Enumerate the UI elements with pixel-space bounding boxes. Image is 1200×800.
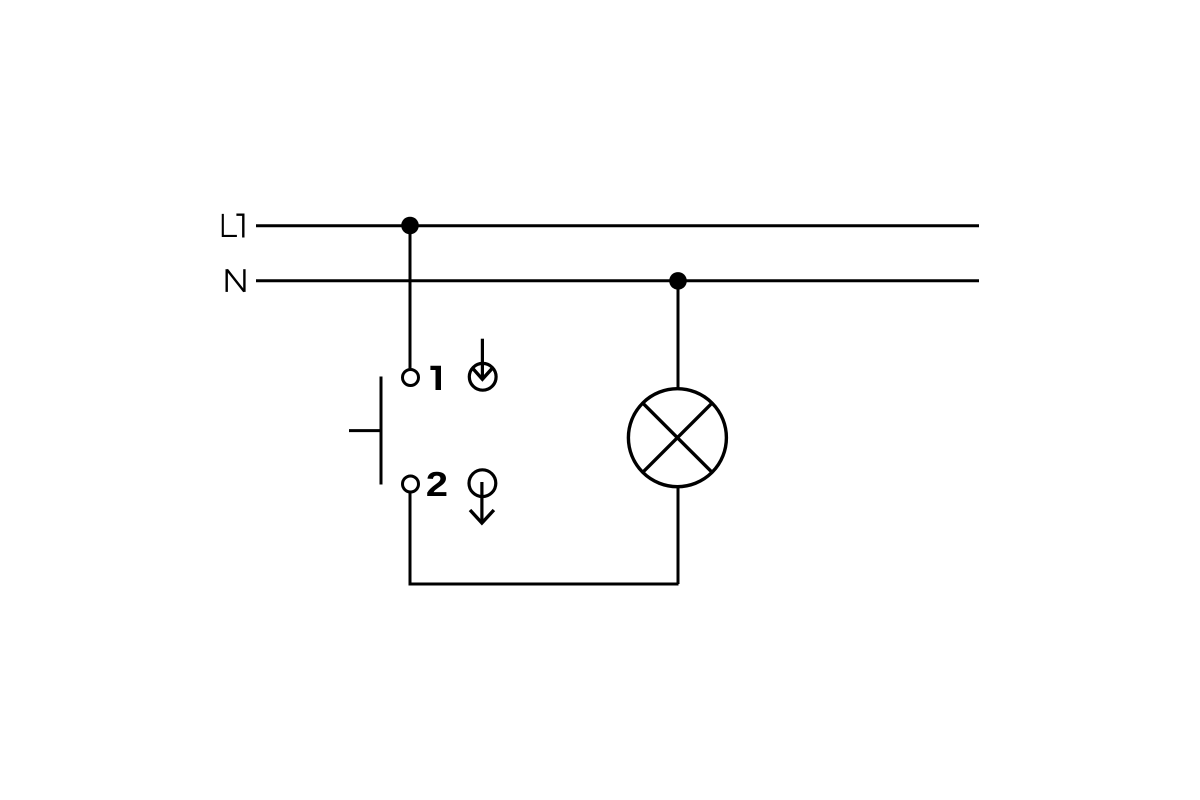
switch S1 operating lever	[349, 429, 381, 432]
wire L1 junction down to switch terminal 1	[409, 226, 412, 369]
terminal 2 circle	[403, 476, 419, 492]
press-in direction indicator at terminal 1: circle	[469, 363, 496, 390]
release direction indicator at terminal 2: arrow shaft	[480, 482, 483, 523]
terminal 1 circle	[403, 370, 419, 386]
node junction on N	[669, 272, 687, 290]
lamp E1 cross stroke 1	[642, 402, 713, 473]
pin label 1	[430, 366, 441, 390]
switch S1 actuator bar	[380, 377, 383, 485]
net label L1	[223, 214, 244, 238]
release direction indicator at terminal 2: circle	[469, 470, 496, 497]
wire up to terminal 2	[409, 493, 412, 584]
wire L1 phase line	[256, 224, 979, 227]
wire bottom horizontal return	[409, 583, 679, 586]
press-in direction indicator at terminal 1: arrow shaft	[481, 339, 484, 379]
release direction indicator at terminal 2: arrowhead	[470, 510, 494, 523]
wire N neutral line	[256, 279, 979, 282]
lamp E1 body circle	[628, 389, 726, 487]
node junction on L1	[401, 217, 419, 235]
press-in direction indicator at terminal 1: arrowhead	[472, 368, 493, 379]
net label N	[227, 269, 245, 292]
lamp E1 cross stroke 2	[642, 402, 713, 473]
wire N junction down to lamp	[677, 281, 680, 389]
wire lamp bottom down	[677, 487, 680, 584]
pin label 2	[427, 472, 446, 496]
